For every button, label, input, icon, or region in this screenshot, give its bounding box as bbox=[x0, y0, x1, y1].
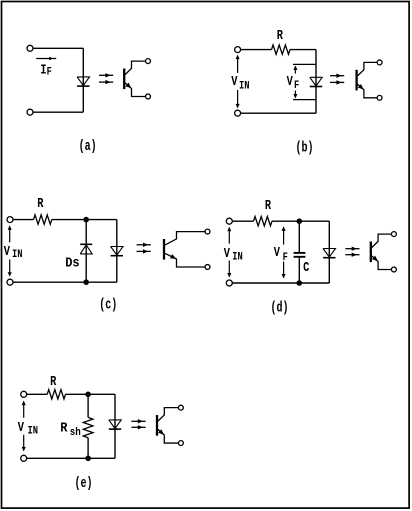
svg-text:Ds: Ds bbox=[65, 256, 80, 272]
svg-text:(d): (d) bbox=[271, 301, 289, 317]
svg-text:(b): (b) bbox=[296, 141, 314, 157]
svg-text:R: R bbox=[37, 196, 44, 212]
svg-text:(a): (a) bbox=[79, 139, 97, 155]
svg-text:IN: IN bbox=[28, 426, 39, 438]
svg-text:C: C bbox=[303, 260, 310, 276]
svg-text:V: V bbox=[287, 74, 294, 90]
svg-text:(e): (e) bbox=[75, 476, 93, 492]
svg-text:IN: IN bbox=[239, 80, 250, 92]
svg-text:V: V bbox=[231, 74, 238, 90]
svg-text:V: V bbox=[4, 244, 11, 260]
svg-text:sh: sh bbox=[70, 427, 81, 439]
svg-text:R: R bbox=[265, 198, 272, 214]
svg-text:R: R bbox=[50, 374, 57, 390]
svg-text:IN: IN bbox=[232, 252, 243, 264]
svg-text:R: R bbox=[277, 28, 284, 44]
svg-text:V: V bbox=[274, 245, 281, 261]
svg-text:V: V bbox=[224, 246, 231, 262]
svg-text:F: F bbox=[294, 80, 299, 92]
svg-text:R: R bbox=[60, 421, 68, 437]
svg-text:F: F bbox=[47, 66, 52, 78]
svg-text:(c): (c) bbox=[99, 298, 117, 314]
svg-text:IN: IN bbox=[12, 249, 23, 261]
svg-text:F: F bbox=[283, 252, 288, 264]
svg-text:V: V bbox=[18, 420, 25, 436]
